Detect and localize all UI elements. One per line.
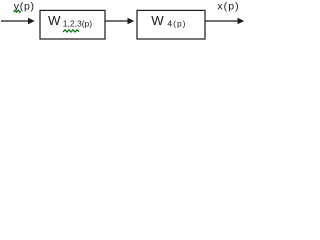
arrowhead into block W1,2,3 (28, 18, 35, 25)
wire: between blocks (106, 20, 129, 22)
block W1,2,3(p) (40, 10, 105, 39)
svg-text:1,2,3(p): 1,2,3(p) (63, 19, 92, 29)
svg-text:4(p): 4(p) (167, 19, 186, 29)
grammar squiggle under 1,2,3 (63, 30, 79, 32)
spellcheck squiggle under y (14, 10, 21, 12)
arrowhead into block W4 (128, 18, 135, 25)
svg-text:x(p): x(p) (217, 1, 239, 13)
block W4(p) (137, 10, 205, 39)
svg-text:W: W (48, 13, 61, 28)
svg-text:W: W (151, 13, 164, 28)
arrowhead of output x(p) (238, 18, 245, 25)
wire: output line (206, 20, 239, 22)
wire: input line (1, 20, 29, 22)
